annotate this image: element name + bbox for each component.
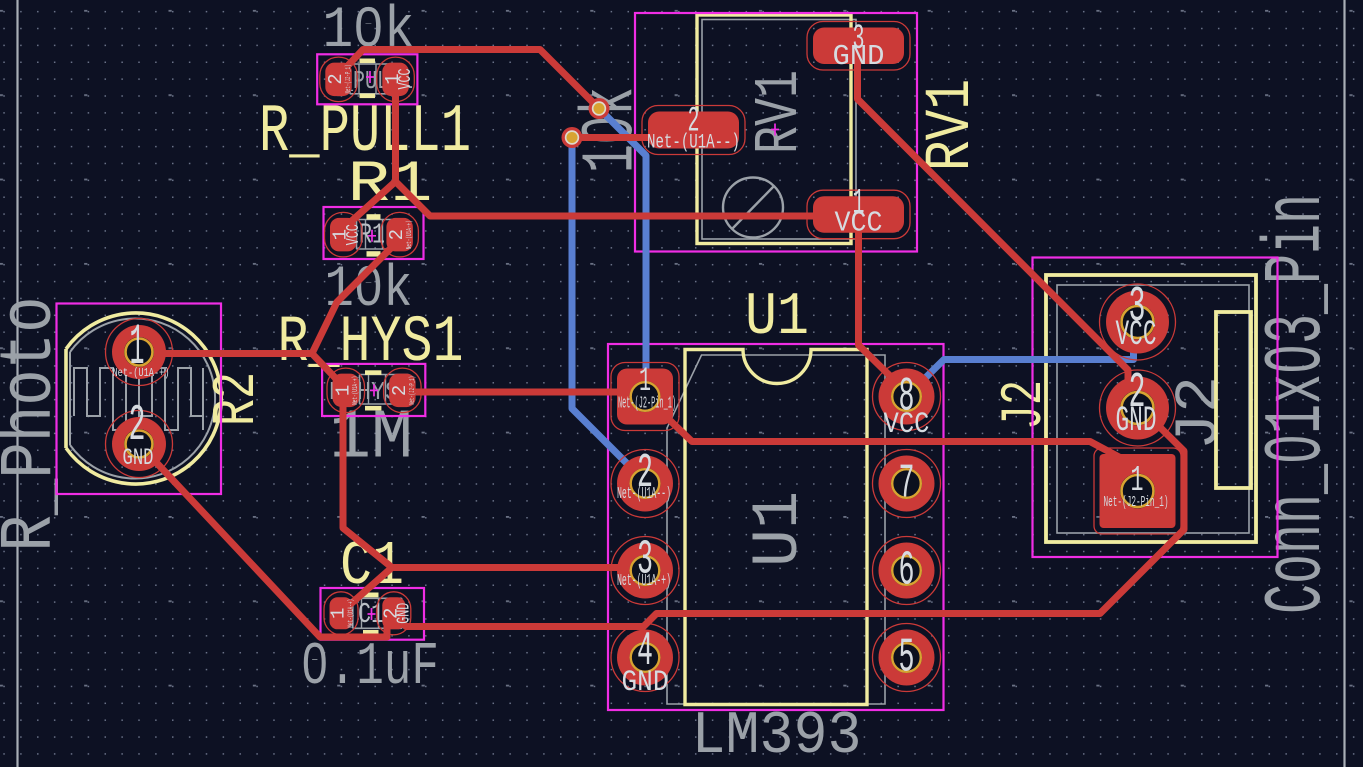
capacitor C1 pad 1: [324, 592, 358, 635]
wire GND R_Photo pad 2 to C1 pad 2: [139, 444, 387, 637]
svg-text:0.1uF: 0.1uF: [301, 634, 439, 702]
op-amp U1 pad 1: [611, 363, 679, 431]
resistor R_PULL1 courtyard: [317, 54, 417, 104]
svg-text:GND: GND: [833, 40, 885, 73]
wire GND RV1 pad 3 to J2 pad 2: [858, 46, 1138, 402]
wire R_HYS1 pad 1 down to junction A: [343, 388, 392, 568]
svg-text:GND: GND: [622, 666, 669, 700]
resistor R_HYS1 fab body: [360, 375, 409, 405]
wire junction to R_HYS1 pad 1: [312, 354, 343, 387]
svg-text:Net-(U1A-+): Net-(U1A-+): [406, 220, 414, 249]
potentiometer RV1 pad 1: [807, 190, 910, 239]
op-amp U1 fab body outline: [667, 355, 885, 704]
resistor R1 silk ticks: [367, 214, 381, 219]
svg-text:1: 1: [328, 608, 350, 619]
photoresistor R2 fab zigzag symbol: [74, 368, 203, 430]
page frame right edge: [1343, 0, 1345, 767]
svg-text:RV1: RV1: [744, 70, 815, 154]
svg-text:GND: GND: [1116, 401, 1157, 441]
wire VCC RV1 pad 1 to U1 pad 8: [859, 215, 907, 393]
connector J2 pad 3: [1100, 284, 1176, 360]
svg-text:R_HYS1: R_HYS1: [278, 305, 464, 380]
resistor R1 fab body: [357, 220, 406, 250]
resistor R_HYS1 silk ticks: [365, 370, 381, 375]
via B (Net U1A--): [562, 127, 583, 148]
zero glyph dot covers (match plain KiCad zeros): [309, 24, 1302, 671]
resistor R1 pad 1: [325, 212, 363, 257]
svg-text:Net-(J2-P_1): Net-(J2-P_1): [409, 376, 417, 405]
potentiometer RV1 fab screw symbol: [723, 178, 783, 238]
svg-text:6: 6: [899, 545, 915, 599]
page frame left edge: [16, 0, 18, 767]
svg-text:VCC: VCC: [884, 408, 930, 442]
connector J2 pad 2: [1100, 370, 1176, 446]
svg-text:RV1: RV1: [916, 79, 988, 171]
resistor R1 pad 2: [381, 212, 419, 257]
anchor R_HYS1: [370, 384, 378, 396]
potentiometer RV1 fab body: [702, 20, 856, 240]
svg-text:J2: J2: [993, 380, 1058, 430]
svg-text:R_Photo: R_Photo: [0, 297, 73, 552]
svg-text:GND: GND: [394, 603, 414, 624]
wire junction A to C1 pad 1: [345, 568, 392, 610]
svg-text:Net-(U1A--): Net-(U1A--): [617, 484, 671, 503]
anchor RV1: [771, 124, 779, 136]
anchor C1: [368, 608, 376, 620]
op-amp U1 pad 8: [873, 363, 941, 431]
wire B.Cu via B to U1 pad 2: [572, 138, 644, 481]
svg-text:Net-(U1A-+): Net-(U1A-+): [617, 571, 671, 590]
connector J2 silk body: [1046, 275, 1256, 542]
op-amp U1 silk body with pin1 notch: [685, 350, 867, 705]
capacitor C1 courtyard: [321, 588, 425, 640]
potentiometer RV1 silk body: [697, 15, 851, 244]
photoresistor R2 silk circle: [66, 313, 221, 484]
resistor R_PULL1 fab body: [350, 64, 399, 94]
resistor R_HYS1 pad 2: [384, 368, 422, 413]
wire junction to R1 pad 2: [312, 244, 395, 354]
wire R_PULL1 pad 2 to via A: [340, 50, 599, 109]
wire junction A to U1 pad 3: [392, 564, 643, 571]
potentiometer RV1 pad 2: [642, 106, 745, 155]
photoresistor R2 courtyard: [57, 304, 222, 495]
svg-text:R2: R2: [204, 372, 272, 426]
op-amp U1 pad 4: [611, 624, 679, 692]
resistor R_PULL1 pad 2: [320, 57, 358, 102]
wire U1 pad 1 output to J2 pad 1: [645, 397, 1133, 491]
potentiometer RV1 courtyard: [635, 13, 917, 252]
svg-text:2: 2: [386, 229, 408, 240]
capacitor C1 pad 2: [377, 592, 411, 635]
svg-text:VCC: VCC: [396, 68, 416, 89]
connector J2 fab body: [1057, 285, 1249, 533]
resistor R_PULL1 silk ticks: [360, 59, 376, 64]
capacitor C1 fab body: [353, 598, 402, 628]
svg-text:GND: GND: [123, 445, 154, 471]
anchor R_PULL1: [366, 71, 374, 83]
svg-text:2: 2: [389, 385, 411, 396]
connector J2 courtyard: [1033, 258, 1278, 558]
anchor R1: [368, 230, 376, 242]
svg-text:VCC: VCC: [1116, 315, 1157, 355]
connector J2 pad 1: [1094, 448, 1181, 534]
resistor R_PULL1 pad 1: [377, 57, 415, 102]
wire B.Cu U1 pad 8 to J2 pad 3 (VCC): [907, 345, 1134, 397]
wire B.Cu via A to U1 pad 1: [599, 109, 646, 393]
op-amp U1 pad 3: [611, 537, 679, 605]
via A (Net J2-Pin_1): [589, 98, 610, 119]
svg-text:Net-(J2-Pin_1): Net-(J2-Pin_1): [1104, 494, 1169, 511]
op-amp U1 pad 6: [873, 537, 941, 605]
capacitor C1 silk ticks: [363, 593, 379, 598]
wire VCC Y junction to RV1 pad 1: [396, 182, 861, 217]
op-amp U1 pad 2: [611, 450, 679, 518]
photoresistor R2 fab circle: [70, 319, 215, 479]
svg-text:Net-(U1A-+): Net-(U1A-+): [113, 366, 170, 380]
connector J2 silk tab: [1216, 312, 1251, 488]
wire VCC R_PULL1 pad 1 down to Y junction: [392, 79, 399, 181]
op-amp U1 pad 7: [873, 450, 941, 518]
wire VCC Y junction to R1 pad 1: [345, 182, 396, 228]
svg-text:LM393: LM393: [692, 703, 862, 767]
wire via B to RV1 pad 2: [572, 134, 660, 141]
resistor R1 courtyard: [324, 207, 424, 259]
svg-text:VCC: VCC: [835, 207, 883, 240]
svg-text:U1: U1: [745, 284, 809, 352]
photoresistor R2 pad 1: [106, 319, 173, 386]
svg-text:Net-(U1A-+): Net-(U1A-+): [348, 599, 356, 628]
potentiometer RV1 pad 3: [807, 22, 910, 71]
svg-text:Net-(J2-Pin_1): Net-(J2-Pin_1): [618, 394, 676, 413]
op-amp U1 pad 5: [873, 624, 941, 692]
svg-text:VCC: VCC: [344, 224, 364, 245]
wire R_HYS1 pad 2 to U1 pad 1: [402, 389, 645, 396]
svg-text:5: 5: [899, 632, 915, 686]
svg-text:Net-(U1A-+): Net-(U1A-+): [352, 376, 360, 405]
wire GND C1 pad 2 to J2 pad 2: [397, 407, 1184, 627]
resistor R_HYS1 courtyard: [322, 364, 425, 416]
svg-text:Net-(J2-P_1): Net-(J2-P_1): [345, 65, 353, 94]
op-amp U1 courtyard: [608, 344, 944, 710]
photoresistor R2 pad 2: [106, 411, 173, 478]
svg-text:U1: U1: [741, 491, 816, 567]
svg-text:7: 7: [899, 458, 915, 512]
svg-text:Net-(U1A--): Net-(U1A--): [647, 132, 740, 155]
resistor R_HYS1 pad 1: [327, 368, 365, 413]
svg-text:2: 2: [325, 73, 347, 84]
wire R_Photo pad 1 to junction: [150, 350, 312, 357]
